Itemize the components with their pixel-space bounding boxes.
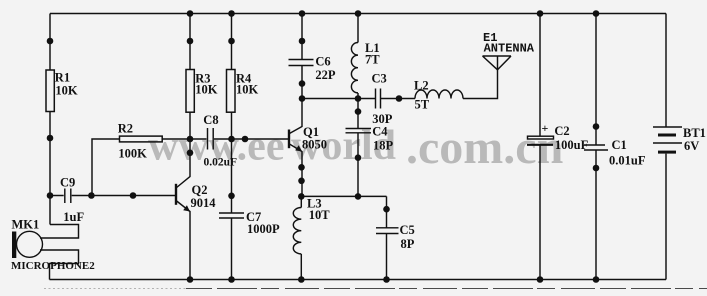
svg-text:0.02uF: 0.02uF <box>204 156 238 168</box>
svg-text:8P: 8P <box>401 237 415 251</box>
svg-text:8050: 8050 <box>302 138 327 152</box>
svg-text:5T: 5T <box>415 98 430 112</box>
svg-text:R2: R2 <box>118 122 133 136</box>
svg-text:C8: C8 <box>203 113 218 127</box>
svg-text:BT1: BT1 <box>683 126 706 140</box>
svg-text:+: + <box>542 121 549 135</box>
svg-text:6V: 6V <box>684 139 699 153</box>
svg-text:C1: C1 <box>612 138 627 152</box>
svg-text:C4: C4 <box>372 125 388 139</box>
svg-text:7T: 7T <box>365 53 380 67</box>
svg-text:9014: 9014 <box>191 196 217 210</box>
svg-text:C9: C9 <box>60 176 75 190</box>
svg-text:100K: 100K <box>118 147 147 161</box>
svg-text:MK1: MK1 <box>12 218 40 232</box>
svg-text:10K: 10K <box>236 83 259 97</box>
svg-text:C5: C5 <box>400 223 415 237</box>
svg-text:1000P: 1000P <box>247 222 280 236</box>
svg-text:1uF: 1uF <box>63 210 84 224</box>
svg-text:L2: L2 <box>414 79 429 93</box>
svg-text:10K: 10K <box>195 83 218 97</box>
svg-text:10K: 10K <box>55 84 78 98</box>
svg-text:10T: 10T <box>309 208 331 222</box>
svg-text:Q2: Q2 <box>192 183 208 197</box>
svg-text:C3: C3 <box>372 72 387 86</box>
svg-text:18P: 18P <box>373 139 394 153</box>
svg-text:22P: 22P <box>315 68 336 82</box>
svg-text:C6: C6 <box>315 54 330 68</box>
svg-text:MICROPHONE2: MICROPHONE2 <box>11 260 95 272</box>
svg-text:ANTENNA: ANTENNA <box>484 42 535 56</box>
svg-text:100uF: 100uF <box>555 138 589 152</box>
svg-text:C2: C2 <box>554 124 569 138</box>
svg-text:0.01uF: 0.01uF <box>609 154 646 168</box>
